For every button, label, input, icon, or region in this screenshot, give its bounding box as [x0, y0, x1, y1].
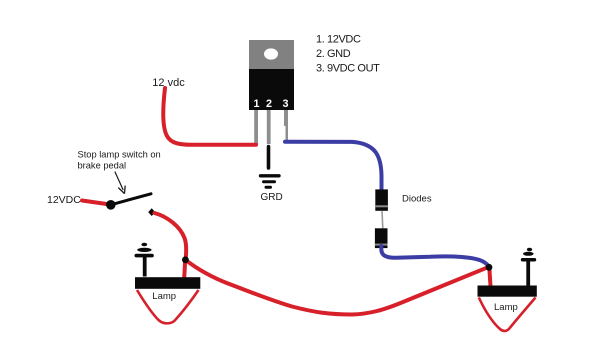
- switch S1 lever: [111, 194, 151, 205]
- lamp L1 base: [135, 277, 200, 289]
- wire red 12VDC to switch S1: [82, 201, 110, 205]
- voltage regulator U1 tab: [249, 40, 294, 69]
- node A junction: [182, 256, 189, 263]
- wire blue D2 to node B: [381, 246, 489, 267]
- ground symbol: [261, 176, 280, 188]
- svg-text:2: 2: [266, 98, 272, 110]
- svg-text:Stop lamp switch on: Stop lamp switch on: [78, 149, 161, 159]
- svg-text:Lamp: Lamp: [494, 302, 518, 313]
- lamp L2 base: [478, 286, 537, 297]
- wire pin2 to ground: [267, 147, 271, 169]
- svg-text:12 vdc: 12 vdc: [152, 77, 185, 89]
- lamp L1 bulb outline: [137, 290, 199, 323]
- switch S1 output terminal: [148, 208, 155, 216]
- svg-text:Diodes: Diodes: [402, 194, 432, 205]
- wire red node A to node B swoop: [185, 260, 489, 315]
- svg-text:brake pedal: brake pedal: [78, 161, 127, 171]
- diode D1: [375, 189, 388, 210]
- U1 pin 3 leg: [284, 110, 288, 141]
- wire blue U1 pin 3 to diode D1: [285, 142, 382, 192]
- svg-text:2. GND: 2. GND: [316, 48, 351, 60]
- lamp L2 bulb outline: [479, 298, 536, 332]
- svg-text:1. 12VDC: 1. 12VDC: [316, 34, 361, 46]
- wire red node A to lamp L1: [184, 260, 185, 279]
- switch S1 pivot: [106, 200, 116, 210]
- svg-text:GRD: GRD: [261, 192, 283, 203]
- node B junction: [486, 264, 493, 271]
- diode D2: [375, 228, 388, 248]
- svg-text:Lamp: Lamp: [152, 291, 176, 302]
- svg-text:3. 9VDC OUT: 3. 9VDC OUT: [316, 63, 380, 75]
- wire red switch to node A: [155, 213, 187, 260]
- wire red node B to lamp L2: [489, 267, 490, 286]
- svg-text:3: 3: [282, 98, 288, 110]
- U1 pin 2 leg: [267, 110, 271, 144]
- U1 pin 1 leg: [254, 110, 258, 144]
- diode interconnect wire: [381, 211, 384, 229]
- label stop lamp switch note: [78, 149, 161, 170]
- lamp L2 terminal stem: [521, 248, 536, 286]
- svg-text:12VDC: 12VDC: [47, 194, 81, 206]
- arrow to switch: [115, 172, 125, 194]
- svg-text:1: 1: [253, 98, 259, 110]
- wire red 12vdc to U1 pin 1: [163, 88, 256, 145]
- pin legend text: [316, 34, 380, 75]
- lamp L1 terminal stem: [135, 243, 154, 277]
- voltage regulator U1 body: [249, 69, 294, 110]
